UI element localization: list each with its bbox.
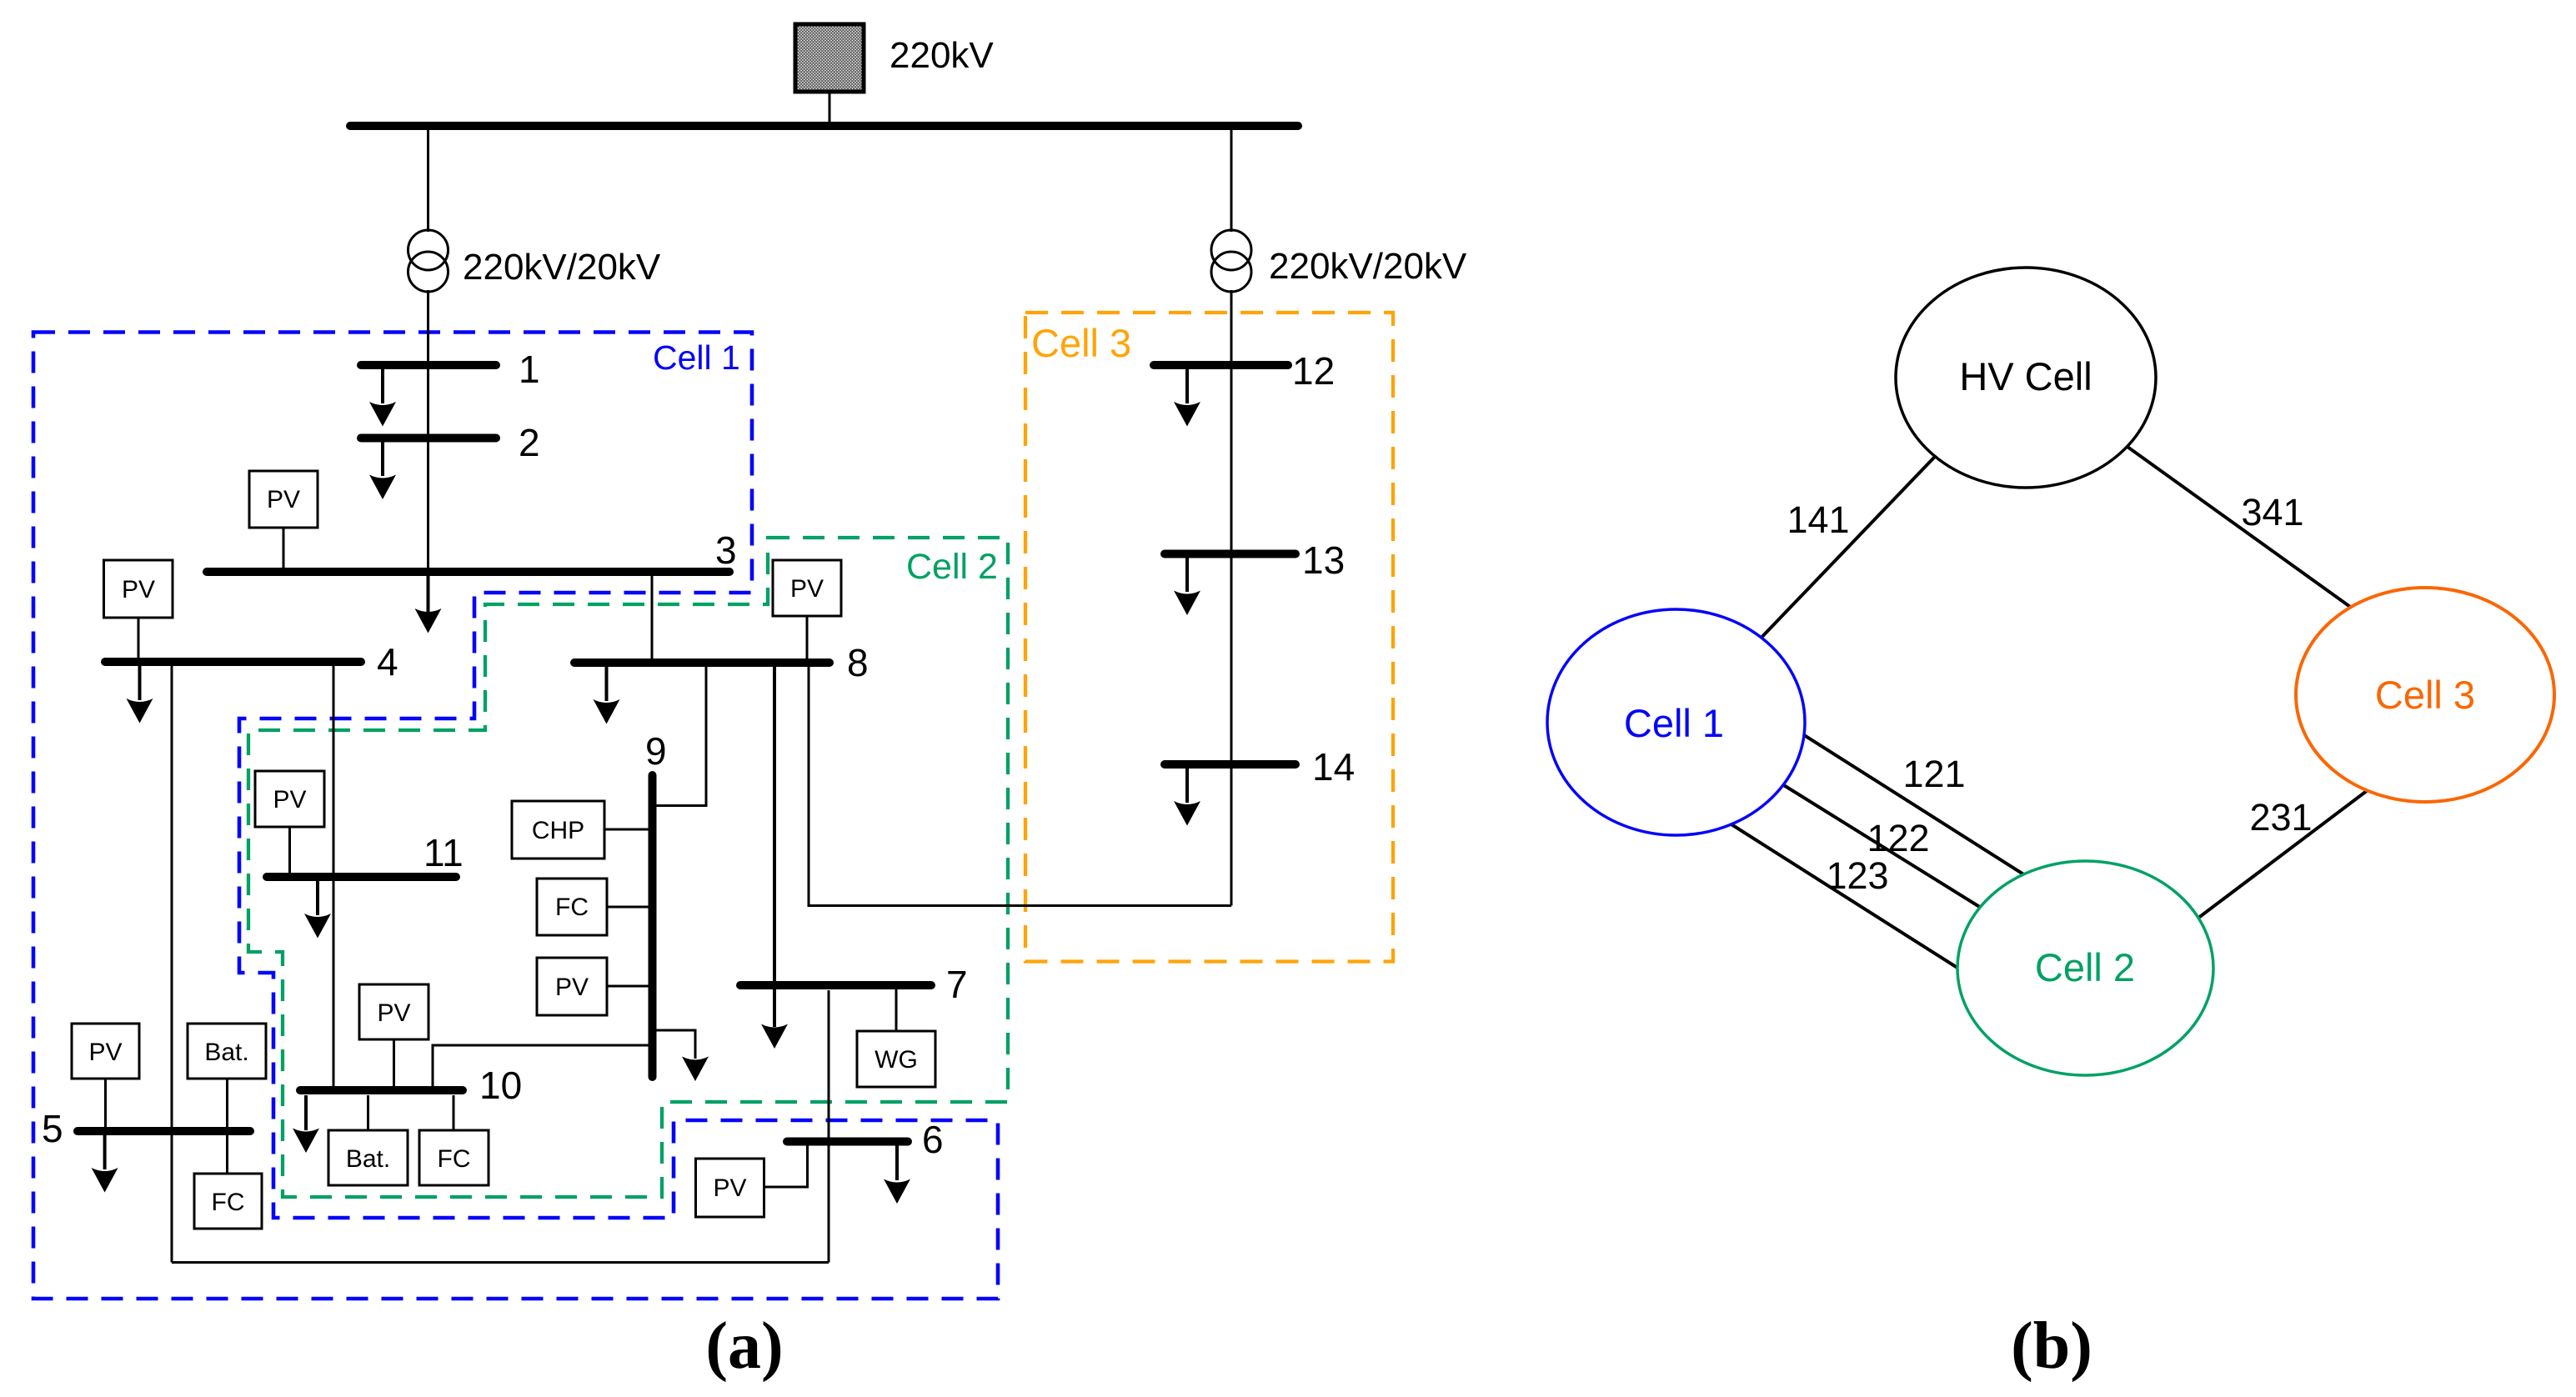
load arrow bus 12 (1185, 368, 1189, 403)
graph node Cell 1 (1547, 609, 1805, 835)
bus 10 (300, 1086, 463, 1094)
WG box at bus 7 (857, 1031, 935, 1087)
svg-text:Bat.: Bat. (204, 1039, 248, 1066)
svg-text:2: 2 (519, 421, 540, 464)
battery box below bus 10 (328, 1130, 408, 1185)
wire source to main bus (829, 92, 831, 122)
fuel cell box below bus 5 (194, 1174, 262, 1229)
bus 12 (1154, 361, 1288, 369)
wire main bus to transformer T1 (427, 126, 429, 232)
svg-text:8: 8 (847, 641, 869, 684)
svg-text:PV: PV (267, 486, 300, 513)
bus 9 vertical (649, 775, 657, 1077)
load arrow bus 5 (103, 1134, 107, 1169)
graph node Cell 3 (2296, 588, 2554, 802)
bus 1 (361, 361, 496, 369)
svg-text:Cell 3: Cell 3 (1031, 321, 1131, 365)
load arrow bus 4 (138, 665, 142, 700)
svg-text:341: 341 (2241, 491, 2303, 533)
long load arrow bus 8 through bus 7 (773, 666, 776, 1027)
wire CHP to bus 9 (604, 829, 649, 831)
svg-text:220kV: 220kV (890, 35, 994, 76)
svg-text:FC: FC (438, 1145, 471, 1173)
graph edge 121 Cell1 to Cell2 (1792, 728, 2034, 881)
svg-text:1: 1 (519, 348, 540, 391)
wire transformer T1 to bus 3 feeder (427, 290, 429, 575)
load arrow at bus 9 bottom (656, 1030, 695, 1059)
bus 6 (787, 1138, 908, 1146)
svg-text:11: 11 (423, 831, 464, 874)
svg-text:CHP: CHP (532, 817, 584, 844)
svg-text:122: 122 (1867, 817, 1929, 859)
load arrow bus 14 (1185, 768, 1189, 803)
svg-text:WG: WG (875, 1046, 918, 1074)
wire PV to bus 3 (283, 528, 285, 568)
svg-text:PV: PV (273, 786, 306, 814)
wire PV to bus 8 (806, 616, 809, 659)
svg-text:13: 13 (1302, 538, 1345, 582)
PV box at bus 11 (255, 771, 324, 827)
svg-text:141: 141 (1787, 498, 1849, 541)
wire PV to bus 6 (764, 1145, 808, 1187)
bus 8 (574, 658, 829, 667)
cell 2 boundary (248, 538, 1008, 1197)
wire up to bus 6 and bus 7 (828, 990, 830, 1263)
cell 1 boundary (33, 333, 998, 1299)
wire bus 4 down to bus 5 and corner (171, 665, 173, 1263)
svg-text:14: 14 (1312, 745, 1355, 789)
svg-text:6: 6 (922, 1118, 944, 1161)
bus 14 (1165, 760, 1296, 769)
wire battery to bus 10 (367, 1095, 369, 1130)
graph node HV Cell (1896, 268, 2156, 488)
svg-text:7: 7 (946, 963, 968, 1006)
PV box at bus 10 (359, 984, 428, 1039)
svg-text:10: 10 (479, 1064, 522, 1107)
wire PV to bus 4 (138, 618, 140, 658)
wire PV to bus 5 (104, 1079, 107, 1128)
wire bus 8 to cell 3 feeder (809, 666, 1231, 906)
svg-text:4: 4 (377, 640, 398, 683)
wire battery to bus 5 (226, 1079, 228, 1128)
load arrow bus 11 (316, 880, 319, 915)
svg-text:123: 123 (1826, 854, 1888, 897)
load arrow bus 10 (304, 1095, 308, 1130)
svg-text:(a): (a) (705, 1309, 783, 1383)
bus 5 (78, 1127, 250, 1135)
graph edge 231 Cell2 to Cell3 (2188, 783, 2378, 926)
wire bottom run to bus 6 (172, 1261, 829, 1264)
svg-text:PV: PV (377, 999, 410, 1027)
svg-text:12: 12 (1292, 349, 1335, 393)
svg-text:Cell 2: Cell 2 (906, 547, 998, 587)
battery box at bus 5 (188, 1024, 266, 1079)
load arrow below bus 3 (427, 575, 430, 614)
bus 2 (361, 434, 496, 443)
graph node Cell 2 (1957, 861, 2213, 1075)
svg-text:Cell 2: Cell 2 (2035, 945, 2135, 989)
wire bus 10 to bus 9 (433, 1045, 649, 1088)
wire bus 3 to bus 8 (651, 575, 654, 659)
graph edge 122 Cell1 to Cell2 (1776, 780, 2009, 925)
svg-text:5: 5 (42, 1107, 63, 1150)
svg-text:Cell 1: Cell 1 (653, 338, 740, 377)
PV box at bus 6 (696, 1159, 764, 1217)
PV box at bus 3 (249, 471, 318, 528)
svg-text:PV: PV (122, 576, 155, 603)
main 220kV bus (350, 122, 1298, 130)
transformer T1 220kV/20kV (408, 230, 449, 292)
wire PV to bus 11 (288, 827, 291, 874)
load arrow bus 6 (895, 1145, 899, 1180)
bus 13 (1165, 550, 1296, 558)
cell 3 boundary (1025, 313, 1393, 962)
bus 7 (740, 981, 931, 989)
PV box at bus 9 (537, 958, 607, 1015)
svg-text:(b): (b) (2011, 1309, 2092, 1383)
bus 11 (267, 873, 456, 881)
wire fuel cell to bus 5 (226, 1134, 228, 1174)
graph edge 123 Cell1 to Cell2 (1709, 810, 1976, 979)
PV box at bus 8 (773, 560, 841, 616)
transformer T2 220kV/20kV (1211, 230, 1251, 292)
wire PV to bus 10 (393, 1039, 395, 1088)
graph edge 341 HV to Cell3 (2116, 438, 2368, 619)
CHP box at bus 9 (512, 801, 604, 859)
load arrow bus 8 (605, 666, 609, 701)
load arrow bus 13 (1185, 557, 1189, 592)
graph edge 141 HV to Cell1 (1755, 440, 1951, 644)
wire bus 8 to bus 9 (656, 663, 706, 806)
PV box at bus 5 (72, 1024, 139, 1079)
wire PV to bus 9 (607, 985, 649, 988)
svg-text:HV Cell: HV Cell (1959, 354, 2092, 398)
svg-text:PV: PV (88, 1039, 122, 1066)
svg-text:220kV/20kV: 220kV/20kV (463, 247, 661, 288)
load arrow bus 1 (381, 368, 384, 403)
bus 4 (105, 658, 361, 666)
fuel cell box at bus 9 (537, 879, 607, 935)
svg-text:231: 231 (2249, 796, 2312, 839)
wire bus 4 to bus 11 and bus 10 (333, 665, 335, 1088)
svg-text:PV: PV (790, 575, 824, 603)
wire WG to bus 7 (895, 989, 898, 1031)
load arrow bus 2 (381, 441, 384, 476)
svg-text:Cell 3: Cell 3 (2375, 673, 2475, 717)
svg-text:3: 3 (715, 528, 737, 572)
svg-text:PV: PV (713, 1174, 746, 1202)
svg-text:220kV/20kV: 220kV/20kV (1269, 246, 1467, 287)
grid source 220kV (hatched box) (795, 24, 864, 92)
svg-text:9: 9 (645, 729, 667, 773)
svg-text:121: 121 (1902, 753, 1965, 795)
fuel cell box below bus 10 (419, 1130, 489, 1185)
svg-text:FC: FC (212, 1189, 245, 1216)
wire fuel cell to bus 10 (453, 1095, 455, 1130)
wire main bus to transformer T2 (1230, 126, 1233, 232)
svg-text:Bat.: Bat. (346, 1145, 390, 1173)
bus 3 (207, 568, 729, 576)
wire fuel cell to bus 9 (607, 906, 649, 909)
svg-text:Cell 1: Cell 1 (1624, 701, 1724, 745)
svg-text:PV: PV (555, 974, 589, 1001)
svg-text:FC: FC (555, 894, 589, 921)
wire transformer T2 down cell 3 feeder (1230, 290, 1233, 906)
PV box at bus 4 (104, 560, 173, 618)
